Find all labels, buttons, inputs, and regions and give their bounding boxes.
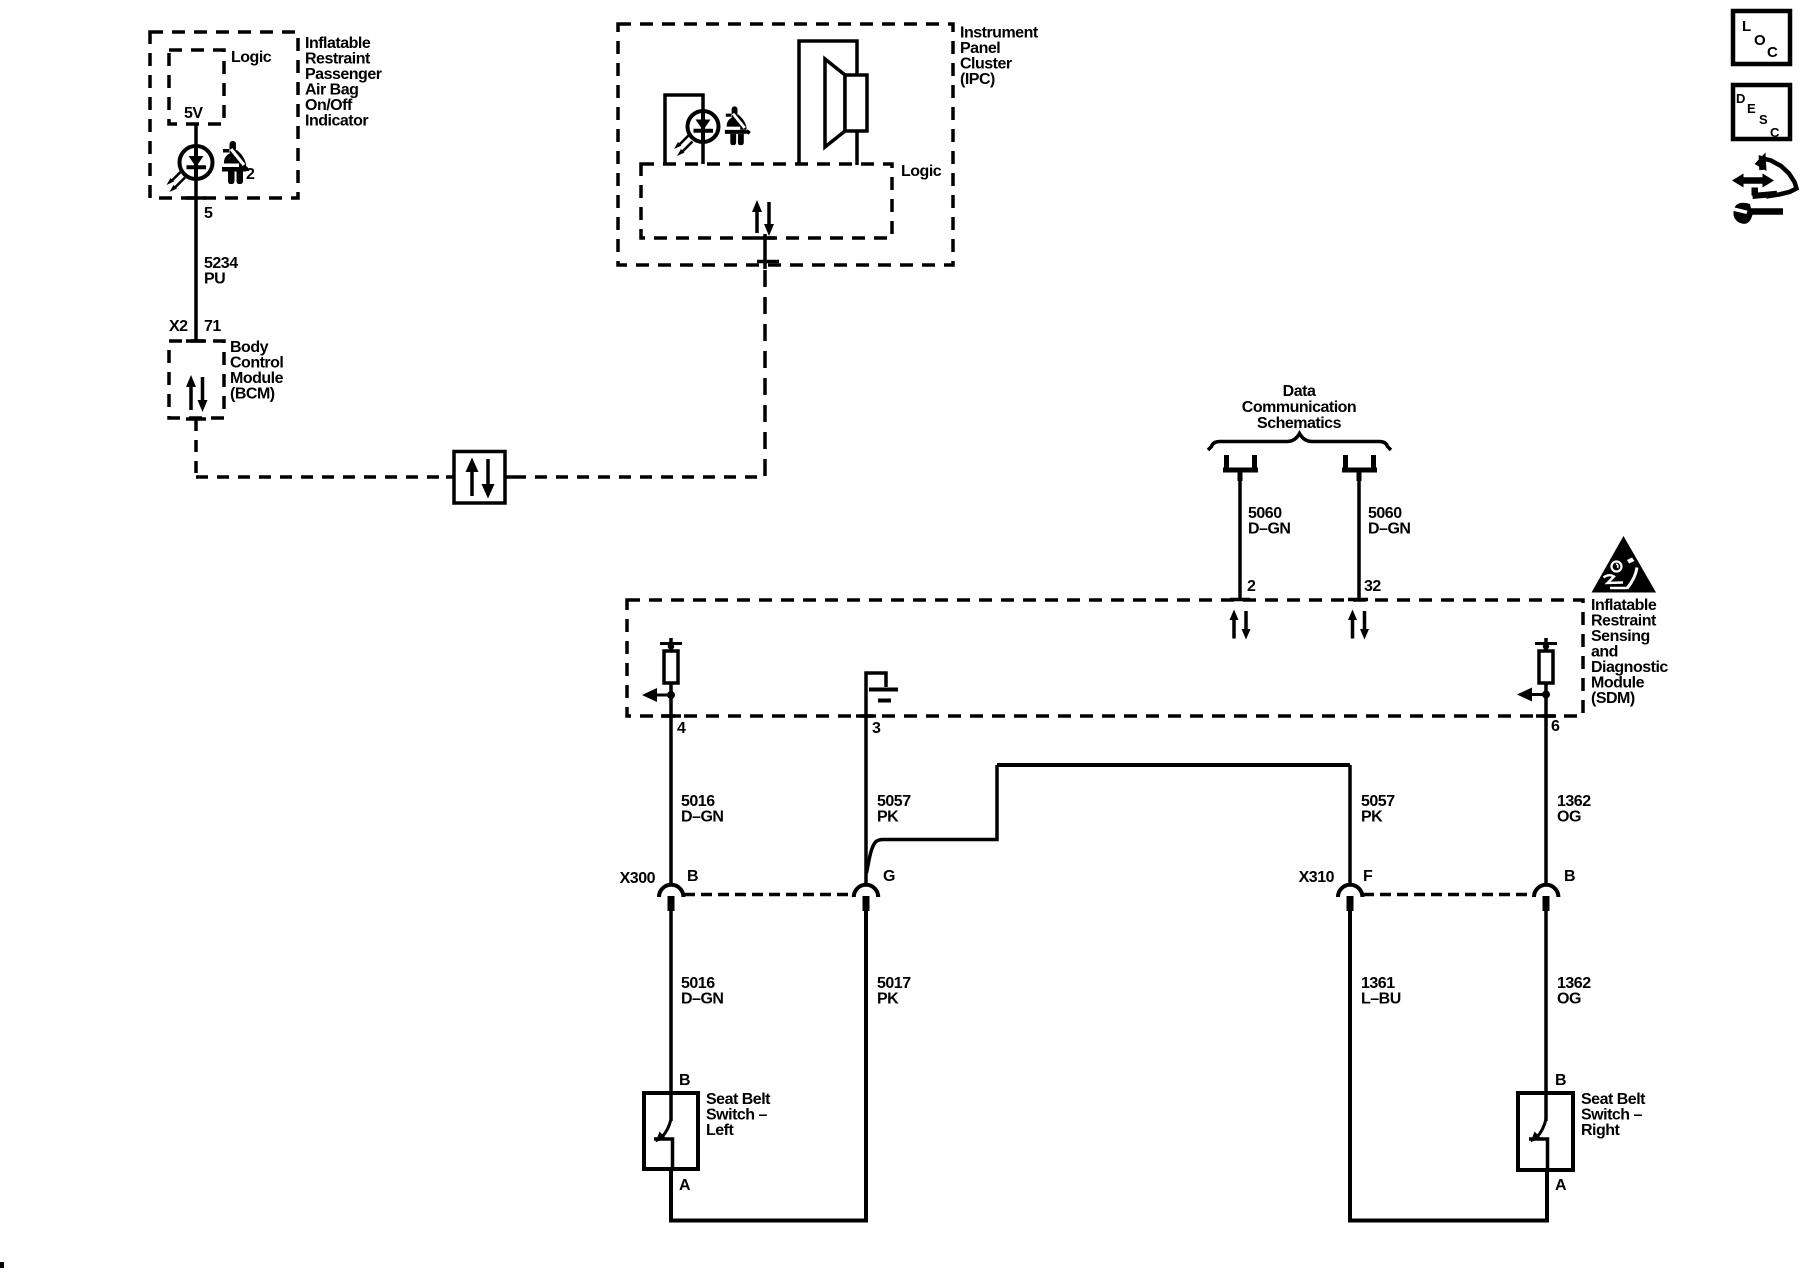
svg-text:32: 32 [1364,578,1381,595]
svg-text:C: C [1767,44,1778,61]
svg-text:Body: Body [230,339,269,356]
svg-text:A: A [1555,1177,1567,1194]
svg-text:On/Off: On/Off [305,97,353,114]
svg-text:1362: 1362 [1557,975,1591,992]
svg-text:Passenger: Passenger [305,66,382,83]
svg-text:1361: 1361 [1361,975,1395,992]
svg-text:2: 2 [246,166,255,183]
svg-text:X2: X2 [169,318,188,335]
svg-text:PU: PU [204,271,225,288]
svg-text:Restraint: Restraint [305,51,371,68]
svg-text:B: B [1555,1072,1566,1089]
svg-text:D–GN: D–GN [1248,521,1290,538]
svg-text:S: S [1759,112,1768,127]
svg-text:(BCM): (BCM) [230,386,275,403]
svg-text:5V: 5V [184,105,203,122]
svg-text:G: G [883,868,895,885]
svg-text:3: 3 [872,720,881,737]
svg-text:B: B [679,1072,690,1089]
svg-text:Sensing: Sensing [1591,628,1650,645]
svg-text:5: 5 [204,205,213,222]
svg-text:B: B [687,868,698,885]
svg-text:B: B [1564,868,1575,885]
svg-text:Inflatable: Inflatable [305,35,371,52]
svg-text:D–GN: D–GN [681,991,723,1008]
svg-text:Left: Left [706,1122,735,1139]
svg-text:E: E [1747,101,1756,116]
svg-text:and: and [1591,644,1618,661]
svg-text:Air Bag: Air Bag [305,82,358,99]
svg-text:Diagnostic: Diagnostic [1591,659,1668,676]
svg-text:Restraint: Restraint [1591,613,1657,630]
svg-text:C: C [1770,125,1780,140]
svg-text:D–GN: D–GN [1368,521,1410,538]
svg-text:L–BU: L–BU [1361,991,1401,1008]
svg-text:OG: OG [1557,991,1581,1008]
svg-text:5057: 5057 [877,793,911,810]
svg-text:Schematics: Schematics [1257,415,1342,432]
svg-text:Seat Belt: Seat Belt [706,1091,771,1108]
svg-text:5017: 5017 [877,975,911,992]
svg-text:D–GN: D–GN [681,809,723,826]
svg-text:5060: 5060 [1368,505,1402,522]
svg-text:5060: 5060 [1248,505,1282,522]
svg-text:Indicator: Indicator [305,113,368,130]
svg-text:Panel: Panel [960,40,1000,57]
svg-text:2: 2 [1247,578,1256,595]
svg-text:D: D [1736,91,1745,106]
svg-text:5234: 5234 [204,255,238,272]
svg-text:PK: PK [877,809,899,826]
svg-text:(SDM): (SDM) [1591,690,1635,707]
svg-text:1362: 1362 [1557,793,1591,810]
svg-text:X300: X300 [620,870,656,887]
svg-text:Module: Module [1591,675,1645,692]
svg-text:4: 4 [677,720,686,737]
svg-text:L: L [1742,18,1751,35]
svg-text:5057: 5057 [1361,793,1395,810]
svg-text:Logic: Logic [231,49,272,66]
svg-text:Logic: Logic [901,163,942,180]
svg-text:6: 6 [1551,718,1560,735]
svg-text:5016: 5016 [681,975,715,992]
svg-text:71: 71 [204,318,221,335]
svg-text:Right: Right [1581,1122,1621,1139]
svg-text:PK: PK [877,991,899,1008]
svg-text:F: F [1363,868,1373,885]
svg-text:OG: OG [1557,809,1581,826]
svg-text:5016: 5016 [681,793,715,810]
svg-text:O: O [1754,32,1766,49]
svg-text:Seat Belt: Seat Belt [1581,1091,1646,1108]
svg-text:PK: PK [1361,809,1383,826]
svg-text:Module: Module [230,370,284,387]
svg-text:(IPC): (IPC) [960,71,995,88]
svg-text:Instrument: Instrument [960,25,1039,42]
svg-text:Switch –: Switch – [1581,1107,1643,1124]
svg-text:Data: Data [1283,383,1316,400]
svg-text:Cluster: Cluster [960,56,1012,73]
svg-text:Switch –: Switch – [706,1107,768,1124]
svg-text:Communication: Communication [1242,399,1356,416]
svg-text:X310: X310 [1299,869,1335,886]
svg-text:A: A [679,1177,691,1194]
svg-text:Inflatable: Inflatable [1591,597,1657,614]
svg-text:Control: Control [230,355,283,372]
